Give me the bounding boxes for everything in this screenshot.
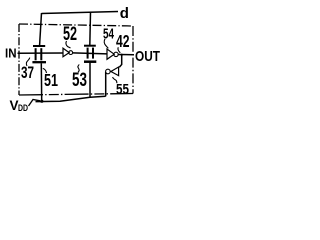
junction tap / output wire — [121, 54, 123, 56]
wire: d control line (top horizontal) — [42, 12, 119, 14]
svg-text:IN: IN — [5, 46, 17, 61]
op-amp inverter 42 triangle — [107, 49, 114, 59]
svg-text:53: 53 — [72, 69, 87, 91]
wire: input wire IN to inverter 52 through transistor 51 — [18, 52, 64, 54]
svg-text:OUT: OUT — [135, 48, 161, 65]
inverter 52 bubble — [69, 51, 73, 55]
transistor 51 left plate — [35, 48, 37, 60]
VDD leader arrow — [29, 100, 41, 107]
svg-text:52: 52 — [63, 23, 77, 44]
transistor 51 bulk bar — [32, 61, 46, 63]
svg-text:d: d — [120, 5, 129, 22]
inverter 55 bubble — [106, 69, 111, 74]
inverter 42 bubble — [114, 52, 118, 56]
label 42 leader — [118, 47, 120, 53]
junction rail / bulk lead 51 — [40, 100, 43, 103]
label 51 leader — [43, 68, 47, 73]
boundary box right edge — [132, 26, 134, 94]
label 55 leader — [113, 77, 117, 83]
transistor 53 bulk bar — [84, 60, 96, 63]
boundary box left edge — [18, 24, 20, 95]
wire: inverter 42 output to OUT — [118, 54, 134, 56]
svg-text:V: V — [10, 98, 19, 113]
svg-text:37: 37 — [21, 64, 34, 82]
transistor 53 gate bar — [84, 45, 96, 47]
label 53 leader — [78, 65, 79, 73]
svg-text:51: 51 — [44, 71, 58, 91]
wire: gate lead of transistor 53 from d line — [89, 12, 92, 46]
svg-text:54: 54 — [103, 26, 114, 42]
wire: VDD rail — [36, 96, 106, 101]
wire: inverter 55 output down to rail — [105, 72, 107, 96]
label 37 leader — [26, 58, 29, 66]
wire: bulk lead of transistor 53 down to VDD rail — [89, 63, 91, 98]
boundary box (dash-dot chip outline) top edge — [19, 24, 133, 26]
svg-text:42: 42 — [116, 33, 129, 51]
transistor 51 right plate — [40, 48, 42, 60]
boundary box bottom edge — [19, 94, 133, 96]
wire: inverter 52 output to inverter 42 through transistor 53 — [73, 53, 108, 54]
label 54 leader — [104, 39, 108, 49]
wire: feedback tap from output wire down to inverter 55 input — [119, 55, 121, 67]
transistor 53 left plate — [87, 48, 89, 59]
wire: bulk lead of transistor 51 down to VDD rail — [40, 63, 42, 101]
transistor 51 gate bar — [33, 45, 45, 47]
label 52 leader — [66, 41, 71, 48]
wire: gate lead of transistor 51 from d line — [40, 13, 42, 47]
op-amp inverter 52 triangle — [63, 48, 69, 57]
op-amp inverter 55 triangle (facing left) — [111, 67, 119, 76]
transistor 53 right plate — [92, 48, 94, 59]
svg-text:DD: DD — [18, 103, 28, 113]
svg-text:55: 55 — [116, 81, 129, 98]
